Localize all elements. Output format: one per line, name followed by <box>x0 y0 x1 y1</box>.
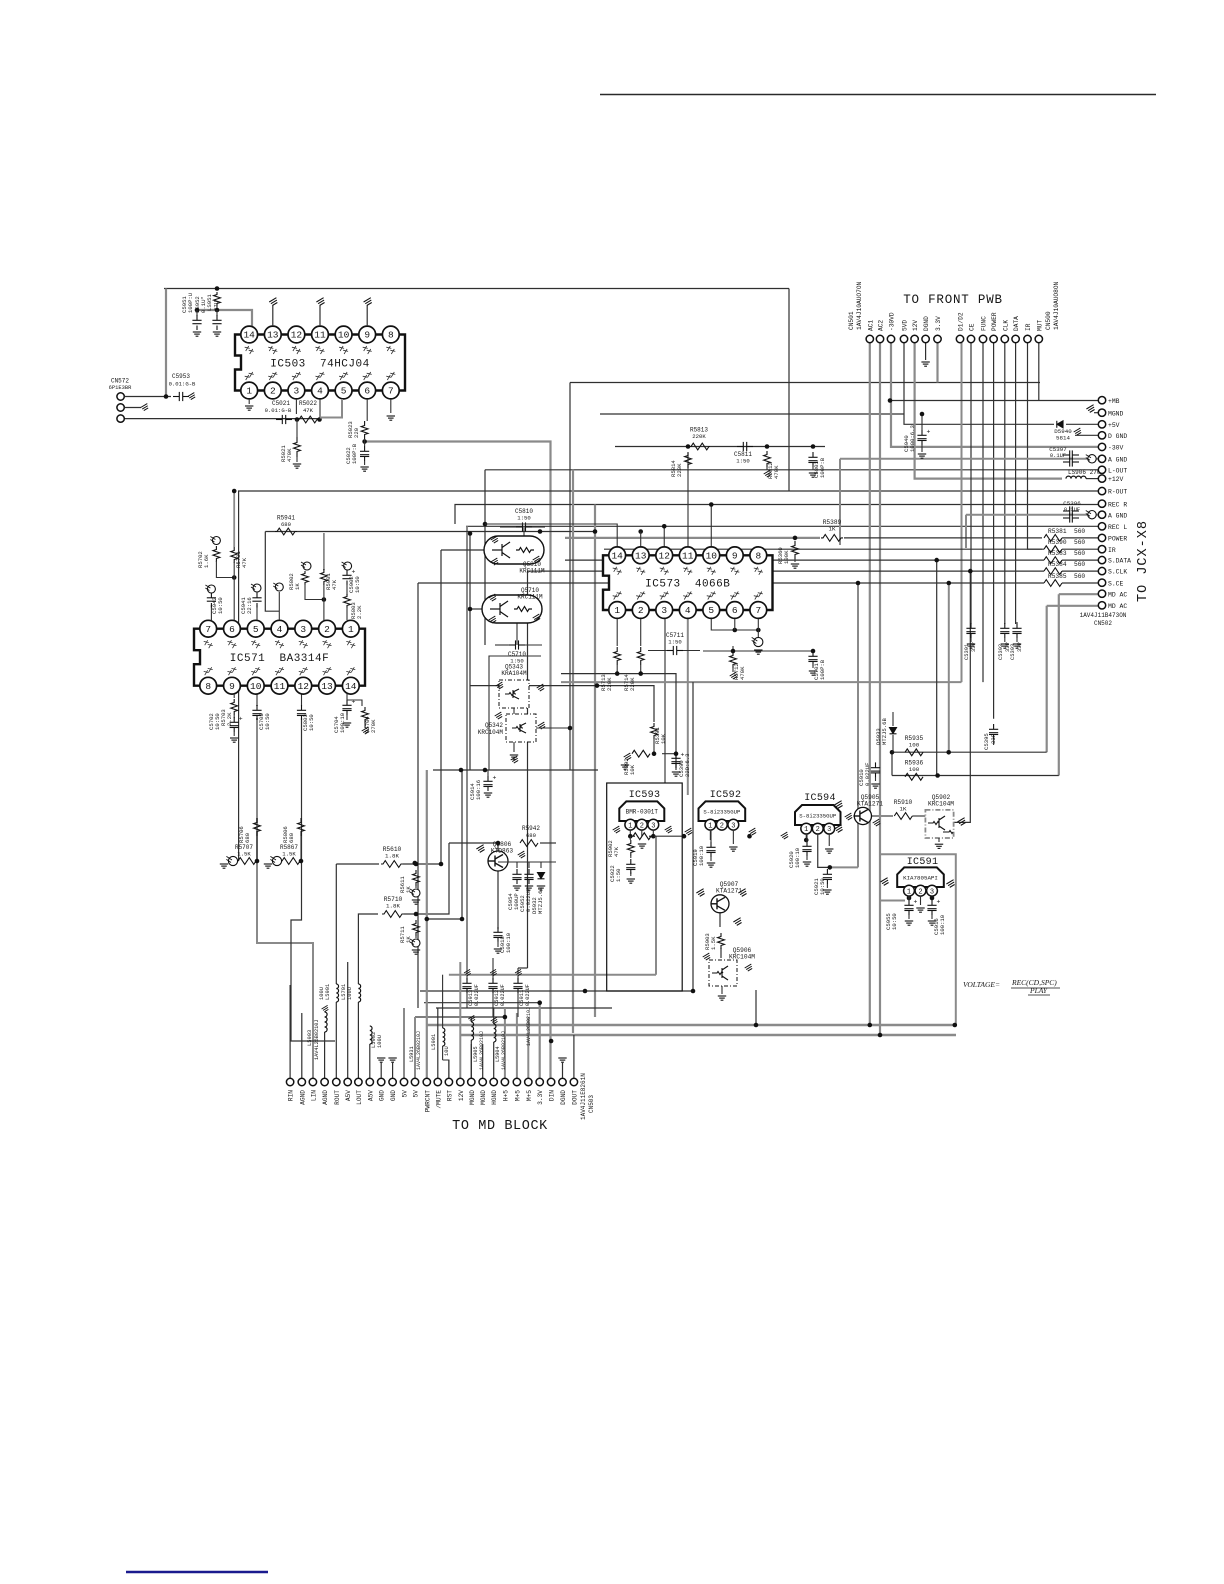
svg-text:IC571 BA3314F: IC571 BA3314F <box>230 653 329 665</box>
svg-text:3: 3 <box>661 605 667 616</box>
svg-text:2: 2 <box>720 822 724 830</box>
svg-text:0.022UF: 0.022UF <box>474 984 480 1006</box>
svg-text:10:50: 10:50 <box>264 713 271 730</box>
svg-text:GND: GND <box>390 1090 397 1101</box>
svg-text:470K: 470K <box>773 465 780 479</box>
svg-text:33P: 33P <box>1017 642 1023 652</box>
svg-text:DGND: DGND <box>560 1090 567 1105</box>
svg-text:1AV4J11B473ON: 1AV4J11B473ON <box>1080 612 1127 619</box>
svg-text:1.5K: 1.5K <box>710 936 717 950</box>
svg-text:CN572: CN572 <box>111 378 129 385</box>
svg-text:R5022: R5022 <box>299 400 317 407</box>
svg-text:KRC104M: KRC104M <box>729 954 755 961</box>
svg-text:6: 6 <box>229 624 235 635</box>
svg-text:47K: 47K <box>331 579 338 590</box>
svg-text:KRC104M: KRC104M <box>928 801 954 808</box>
svg-text:1.8K: 1.8K <box>386 903 400 910</box>
svg-text:BMR-0301T: BMR-0301T <box>626 809 659 816</box>
svg-text:1K: 1K <box>829 526 836 533</box>
svg-text:7: 7 <box>388 386 394 397</box>
svg-text:220K: 220K <box>629 677 636 691</box>
svg-text:13: 13 <box>321 681 333 692</box>
svg-text:C5953: C5953 <box>172 373 190 380</box>
svg-text:3.3V: 3.3V <box>935 316 942 331</box>
svg-text:1.8K: 1.8K <box>385 853 399 860</box>
svg-text:C5395: C5395 <box>983 733 990 750</box>
svg-text:10:50: 10:50 <box>891 913 898 930</box>
svg-text:3: 3 <box>930 888 934 896</box>
svg-text:S-8i2335GUP: S-8i2335GUP <box>799 813 837 820</box>
svg-text:11: 11 <box>314 330 326 341</box>
svg-text:LIN: LIN <box>310 1090 317 1101</box>
svg-text:+5V: +5V <box>1108 422 1120 429</box>
svg-text:0.01:G-B: 0.01:G-B <box>265 407 292 414</box>
svg-text:MD AC: MD AC <box>1108 603 1127 610</box>
svg-text:0.022UF: 0.022UF <box>864 763 871 787</box>
svg-text:470K: 470K <box>286 448 293 462</box>
svg-text:1:50: 1:50 <box>615 868 622 882</box>
svg-text:Q5342: Q5342 <box>485 722 503 729</box>
svg-text:1:50: 1:50 <box>668 639 682 646</box>
svg-text:7: 7 <box>755 605 761 616</box>
svg-text:0.1UF: 0.1UF <box>1064 507 1080 513</box>
svg-text:PWRCNT: PWRCNT <box>424 1090 431 1113</box>
svg-text:100:10: 100:10 <box>794 847 801 868</box>
svg-text:12: 12 <box>659 551 671 562</box>
svg-text:47K: 47K <box>303 407 314 414</box>
svg-text:IC594: IC594 <box>804 793 836 804</box>
svg-text:MD AC: MD AC <box>1108 591 1127 598</box>
svg-text:4: 4 <box>685 605 691 616</box>
svg-text:0.022UF: 0.022UF <box>500 984 506 1006</box>
svg-text:+: + <box>914 899 918 906</box>
svg-text:+: + <box>937 899 941 906</box>
svg-text:6: 6 <box>364 386 370 397</box>
svg-text:CN503: CN503 <box>588 1095 595 1113</box>
svg-text:1AV4J10AUO8ON: 1AV4J10AUO8ON <box>1053 281 1060 330</box>
svg-text:AC2: AC2 <box>878 320 885 331</box>
svg-text:47U: 47U <box>213 301 220 311</box>
svg-text:100U: 100U <box>319 987 325 1000</box>
svg-text:3.3V: 3.3V <box>537 1090 544 1105</box>
svg-text:11: 11 <box>274 681 286 692</box>
svg-text:/MUTE: /MUTE <box>435 1090 442 1109</box>
svg-text:ROUT: ROUT <box>334 1090 341 1105</box>
svg-text:AGND: AGND <box>322 1090 329 1105</box>
svg-text:0.01:G-B: 0.01:G-B <box>169 381 196 388</box>
svg-text:IC503 74HCJ04: IC503 74HCJ04 <box>270 359 369 371</box>
svg-text:1: 1 <box>614 605 620 616</box>
svg-text:A GND: A GND <box>1108 456 1127 463</box>
svg-text:100P:B: 100P:B <box>351 443 358 464</box>
svg-text:IC593: IC593 <box>629 790 661 801</box>
svg-text:1: 1 <box>804 826 808 834</box>
svg-text:+: + <box>239 716 243 723</box>
svg-text:6: 6 <box>732 605 738 616</box>
svg-text:REC L: REC L <box>1108 524 1127 531</box>
svg-text:-30VD: -30VD <box>889 312 896 331</box>
svg-text:KTA1271: KTA1271 <box>857 801 883 808</box>
svg-text:RST: RST <box>446 1090 453 1101</box>
svg-text:PLAY: PLAY <box>1029 986 1048 995</box>
svg-text:33P: 33P <box>971 642 977 652</box>
svg-text:100P:B: 100P:B <box>819 457 826 478</box>
svg-text:10:50: 10:50 <box>217 597 224 614</box>
svg-text:IR: IR <box>1108 547 1116 554</box>
svg-text:10:50: 10:50 <box>354 576 361 593</box>
svg-text:10: 10 <box>250 681 262 692</box>
svg-text:9: 9 <box>364 330 370 341</box>
svg-text:CN501: CN501 <box>848 311 855 330</box>
svg-text:CN502: CN502 <box>1094 620 1112 627</box>
svg-text:C5397: C5397 <box>1049 446 1067 453</box>
svg-text:+MB: +MB <box>1108 398 1120 405</box>
svg-text:KTD863: KTD863 <box>491 848 514 855</box>
svg-text:AGND: AGND <box>299 1090 306 1105</box>
svg-text:100U: 100U <box>377 1035 383 1048</box>
svg-text:3: 3 <box>827 826 831 834</box>
svg-text:100U: 100U <box>347 987 353 1000</box>
svg-text:H+5: H+5 <box>502 1090 509 1101</box>
svg-text:100: 100 <box>909 766 920 773</box>
svg-text:R-OUT: R-OUT <box>1108 489 1127 496</box>
svg-text:A5V: A5V <box>345 1090 352 1101</box>
svg-text:POWER: POWER <box>1108 536 1127 543</box>
svg-text:MGND: MGND <box>1108 410 1124 417</box>
svg-text:L5931: L5931 <box>409 1046 415 1062</box>
svg-text:L5903: L5903 <box>307 1030 313 1046</box>
svg-text:100:16: 100:16 <box>475 780 482 800</box>
svg-text:12: 12 <box>298 681 310 692</box>
svg-text:2: 2 <box>816 826 820 834</box>
svg-text:M+5: M+5 <box>526 1090 533 1101</box>
svg-text:S-8i2335GUP: S-8i2335GUP <box>703 809 741 816</box>
svg-text:1.6K: 1.6K <box>203 554 210 568</box>
svg-text:220K: 220K <box>676 463 683 477</box>
svg-text:680: 680 <box>281 521 292 528</box>
svg-text:100P:B: 100P:B <box>819 659 826 680</box>
svg-text:9: 9 <box>229 681 235 692</box>
svg-text:2: 2 <box>638 605 644 616</box>
svg-text:S.DATA: S.DATA <box>1108 558 1131 565</box>
svg-text:MGND: MGND <box>469 1090 476 1105</box>
svg-text:680: 680 <box>526 832 537 839</box>
svg-text:KRC111M: KRC111M <box>519 568 545 575</box>
svg-text:4: 4 <box>277 624 283 635</box>
svg-text:MTZJ5.6B: MTZJ5.6B <box>537 887 544 914</box>
svg-text:CE: CE <box>969 323 976 331</box>
svg-text:3: 3 <box>294 386 300 397</box>
svg-text:+12V: +12V <box>1108 476 1124 483</box>
svg-text:L-OUT: L-OUT <box>1108 467 1127 474</box>
svg-text:5: 5 <box>708 605 714 616</box>
svg-text:14: 14 <box>243 330 255 341</box>
svg-text:DGND: DGND <box>923 316 930 331</box>
svg-text:12V: 12V <box>912 320 919 331</box>
svg-text:C5391: C5391 <box>964 644 970 660</box>
svg-text:10K: 10K <box>629 764 636 775</box>
svg-text:1.5K: 1.5K <box>282 851 296 858</box>
svg-text:S.CLK: S.CLK <box>1108 569 1127 576</box>
svg-text:C5393: C5393 <box>1010 644 1016 660</box>
svg-text:1AV4L26B0210J: 1AV4L26B0210J <box>416 1031 422 1070</box>
svg-text:C5021: C5021 <box>272 400 290 407</box>
svg-text:7: 7 <box>205 624 211 635</box>
svg-text:2.2K: 2.2K <box>226 712 233 726</box>
svg-text:1K: 1K <box>900 806 907 813</box>
svg-text:R5383 560: R5383 560 <box>1048 550 1085 557</box>
svg-text:1: 1 <box>907 888 911 896</box>
svg-text:LOUT: LOUT <box>356 1090 363 1105</box>
svg-text:REC R: REC R <box>1108 501 1127 508</box>
svg-text:220K: 220K <box>692 433 706 440</box>
svg-text:2.2K: 2.2K <box>356 605 363 619</box>
svg-text:5: 5 <box>341 386 347 397</box>
svg-text:IR: IR <box>1025 323 1032 331</box>
svg-text:1: 1 <box>348 624 354 635</box>
svg-text:13: 13 <box>635 551 647 562</box>
svg-text:5V: 5V <box>413 1090 420 1098</box>
svg-text:1: 1 <box>708 822 712 830</box>
svg-text:A GND: A GND <box>1108 512 1127 519</box>
svg-text:10: 10 <box>338 330 350 341</box>
svg-text:IC591: IC591 <box>907 857 939 868</box>
svg-text:10U: 10U <box>444 1046 450 1056</box>
svg-text:5V: 5V <box>402 1090 409 1098</box>
svg-text:CLK: CLK <box>1002 320 1009 331</box>
svg-text:1AV4L26B0210J: 1AV4L26B0210J <box>479 1031 485 1070</box>
svg-text:VOLTAGE=: VOLTAGE= <box>963 980 1000 989</box>
svg-text:100:10: 100:10 <box>939 914 946 935</box>
svg-text:FUNC: FUNC <box>981 316 988 331</box>
svg-text:100K: 100K <box>783 550 790 564</box>
svg-text:MGND: MGND <box>480 1090 487 1105</box>
svg-text:220: 220 <box>353 427 360 438</box>
svg-text:KRC104M: KRC104M <box>478 729 504 736</box>
svg-text:10K: 10K <box>660 733 667 744</box>
svg-text:100: 100 <box>909 742 920 749</box>
svg-text:11: 11 <box>682 551 694 562</box>
svg-text:470K: 470K <box>739 666 746 680</box>
svg-text:POWER: POWER <box>991 312 998 331</box>
svg-text:5814: 5814 <box>1056 435 1070 442</box>
svg-text:DOUT: DOUT <box>571 1090 578 1105</box>
svg-text:C5392: C5392 <box>998 644 1004 660</box>
svg-text:2: 2 <box>640 822 644 830</box>
svg-text:22:16: 22:16 <box>246 597 253 614</box>
svg-text:HGND: HGND <box>491 1090 498 1105</box>
svg-text:10:50: 10:50 <box>308 714 315 731</box>
svg-text:+: + <box>352 569 356 576</box>
svg-text:1K: 1K <box>294 583 301 590</box>
svg-text:47K: 47K <box>241 557 248 568</box>
svg-text:8: 8 <box>388 330 394 341</box>
svg-text:KRA104M: KRA104M <box>501 670 527 677</box>
svg-text:GND: GND <box>379 1090 386 1101</box>
svg-text:100:10: 100:10 <box>505 932 512 953</box>
svg-text:+: + <box>927 429 931 436</box>
svg-text:2: 2 <box>918 888 922 896</box>
svg-text:12V: 12V <box>458 1090 465 1101</box>
svg-text:R5385 560: R5385 560 <box>1048 573 1085 580</box>
svg-text:1:50: 1:50 <box>517 515 531 522</box>
svg-text:C5396: C5396 <box>1063 500 1081 507</box>
svg-text:1: 1 <box>628 822 632 830</box>
svg-text:RIN: RIN <box>288 1090 295 1101</box>
svg-text:+: + <box>493 775 497 782</box>
svg-text:1AV4L26B0210J: 1AV4L26B0210J <box>501 1031 507 1070</box>
svg-text:270K: 270K <box>370 719 377 733</box>
svg-text:680: 680 <box>288 832 295 843</box>
svg-text:14: 14 <box>345 681 357 692</box>
svg-text:D GND: D GND <box>1108 433 1127 440</box>
svg-text:8: 8 <box>205 681 211 692</box>
svg-text:4: 4 <box>317 386 323 397</box>
svg-text:100:10: 100:10 <box>698 845 705 866</box>
svg-text:L5901: L5901 <box>431 1034 437 1050</box>
svg-text:DATA: DATA <box>1013 316 1020 331</box>
svg-text:R5381 560: R5381 560 <box>1048 528 1085 535</box>
svg-text:KTA1271: KTA1271 <box>716 888 742 895</box>
svg-text:1: 1 <box>246 386 252 397</box>
svg-text:9: 9 <box>732 551 738 562</box>
svg-text:-30V: -30V <box>1108 445 1124 452</box>
svg-text:680: 680 <box>244 832 251 843</box>
svg-text:DIN: DIN <box>549 1090 556 1101</box>
svg-text:3: 3 <box>731 822 735 830</box>
svg-text:R5942: R5942 <box>522 825 540 832</box>
svg-text:100P:U: 100P:U <box>187 293 194 313</box>
svg-text:1000:6.3: 1000:6.3 <box>909 425 916 452</box>
svg-text:12: 12 <box>291 330 303 341</box>
svg-text:TO JCX-X8: TO JCX-X8 <box>1136 520 1151 602</box>
svg-text:1.5K: 1.5K <box>237 851 251 858</box>
svg-text:14: 14 <box>611 551 623 562</box>
svg-text:MTZJ5.6B: MTZJ5.6B <box>881 718 888 745</box>
svg-text:S.CE: S.CE <box>1108 580 1124 587</box>
svg-text:5VD: 5VD <box>902 320 909 331</box>
svg-text:3: 3 <box>651 822 655 830</box>
svg-text:0.1UF: 0.1UF <box>1050 453 1066 459</box>
svg-text:3: 3 <box>300 624 306 635</box>
svg-text:220K: 220K <box>606 677 613 691</box>
svg-text:CN500: CN500 <box>1045 311 1052 330</box>
svg-text:22D:6.3: 22D:6.3 <box>684 754 691 778</box>
svg-text:TO MD BLOCK: TO MD BLOCK <box>452 1119 548 1134</box>
svg-text:1AV4L26B0210J: 1AV4L26B0210J <box>314 1020 320 1060</box>
svg-text:MUT: MUT <box>1036 320 1043 331</box>
svg-text:AC1: AC1 <box>867 320 874 331</box>
svg-text:6P1E3BR: 6P1E3BR <box>109 385 132 391</box>
svg-text:47K: 47K <box>613 846 620 857</box>
svg-text:10: 10 <box>706 551 718 562</box>
svg-text:1AV4J10AUO7ON: 1AV4J10AUO7ON <box>856 281 863 330</box>
svg-text:2: 2 <box>270 386 276 397</box>
svg-text:8: 8 <box>755 551 761 562</box>
svg-text:0.022UF: 0.022UF <box>525 984 531 1006</box>
svg-text:IC592: IC592 <box>710 790 742 801</box>
svg-text:KIA7805API: KIA7805API <box>903 875 938 882</box>
svg-text:1AV4L26B0210J: 1AV4L26B0210J <box>526 1007 532 1046</box>
svg-text:TO FRONT PWB: TO FRONT PWB <box>903 293 1003 307</box>
svg-text:KRC111M: KRC111M <box>517 594 543 601</box>
svg-text:1AV4J11E8261N: 1AV4J11E8261N <box>580 1073 587 1120</box>
svg-text:5: 5 <box>253 624 259 635</box>
svg-text:2: 2 <box>324 624 330 635</box>
svg-text:IC573 4066B: IC573 4066B <box>645 579 730 591</box>
svg-text:L5901: L5901 <box>325 984 331 1000</box>
svg-text:R5384 560: R5384 560 <box>1048 561 1085 568</box>
svg-text:1:50: 1:50 <box>736 458 750 465</box>
svg-text:A5V: A5V <box>367 1090 374 1101</box>
svg-text:R5390 560: R5390 560 <box>1048 539 1085 546</box>
svg-text:M+5: M+5 <box>514 1090 521 1101</box>
svg-text:D1/D2: D1/D2 <box>958 312 965 331</box>
svg-text:13: 13 <box>267 330 279 341</box>
